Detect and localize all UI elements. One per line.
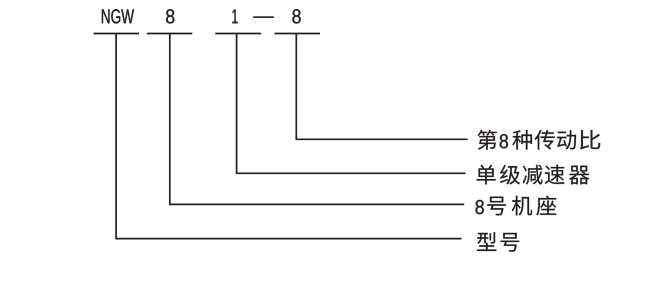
underline under first 8 [147,33,193,35]
underline under 1 [215,33,261,35]
text NGW [102,9,134,23]
underline under NGW [94,33,140,35]
text 1 (stage count digit) [232,9,237,23]
label: 8号机座 (No.8 frame) [475,196,556,216]
text 8 (frame size digit) [166,9,174,23]
label: 第8种传动比 (8th transmission ratio) [477,130,600,150]
leader line from first 8 to frame label [170,34,464,205]
leader line from last 8 to ratio label [296,34,467,140]
label: 单级减速器 (single-stage reducer) [476,165,589,185]
dash between 1 and 8 [253,16,274,18]
underline under last 8 [275,33,321,35]
text 8 (ratio code digit) [292,9,300,23]
leader line from 1 to reducer label [237,34,466,174]
leader line from NGW to model label [116,34,461,239]
label: 型号 (model) [477,232,519,252]
